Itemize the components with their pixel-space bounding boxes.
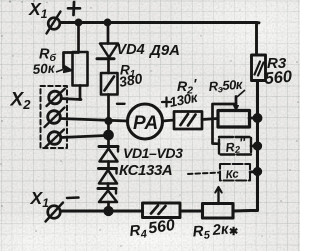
svg-text:Д9А: Д9А <box>148 42 180 59</box>
svg-text:Кс: Кс <box>225 168 240 181</box>
diode VD4 <box>100 44 118 58</box>
arrow from Re label to wiper <box>237 90 245 97</box>
wire R2' to Re <box>202 119 218 120</box>
node junction zener bottom <box>105 207 113 215</box>
node junction right rail top <box>254 114 261 121</box>
minus polarity mark <box>67 196 79 199</box>
resistor Rb body <box>73 52 88 86</box>
wire Rb top <box>77 23 80 53</box>
minus polarity mark <box>117 103 125 105</box>
resistor R3 <box>252 55 266 81</box>
wire pin2 to meter minus <box>60 119 128 122</box>
svg-text:КС133А: КС133А <box>119 162 172 179</box>
resistor R1 <box>101 73 118 95</box>
wire R4 to R5 <box>180 210 203 213</box>
connector X2 dashed outline <box>41 86 68 148</box>
plus polarity mark <box>165 98 167 107</box>
terminal X2 pin 3 <box>48 132 61 145</box>
wire VD3 to bottom rail <box>107 202 110 211</box>
resistor R2' <box>174 112 202 130</box>
terminal X2 pin 1 <box>49 91 62 104</box>
wire R5 to rail corner <box>233 209 251 212</box>
node junction Rb top <box>76 20 81 25</box>
wire right rail <box>250 81 258 211</box>
svg-text:50к: 50к <box>32 60 56 77</box>
wire VD4 anode <box>107 23 110 44</box>
terminal X2 pin 2 <box>48 111 61 124</box>
svg-text:✱: ✱ <box>229 226 238 238</box>
ammeter PA <box>128 104 163 139</box>
node junction <box>254 168 261 175</box>
wire pin1 to Rb bottom <box>61 99 81 100</box>
potentiometer R5 <box>203 204 234 219</box>
resistor R2'' <box>219 137 251 155</box>
svg-text:VD1–VD3: VD1–VD3 <box>123 145 183 161</box>
plus polarity mark <box>72 2 75 15</box>
wire R2'' to rail <box>251 145 258 148</box>
resistor Kc <box>220 164 250 181</box>
zener diode VD1 <box>99 145 118 148</box>
wire Kc to rail <box>250 170 258 173</box>
terminal X1 plus (top left) <box>48 18 60 30</box>
zener diode VD3 <box>98 187 116 190</box>
dashed wire to Kc <box>188 173 220 175</box>
resistor R4 <box>143 203 181 218</box>
wire pin3 to node <box>61 136 106 138</box>
wiper tap of R5 <box>217 189 219 204</box>
arrow from 50k label to wiper <box>56 70 63 73</box>
rheostat Re 50k body <box>218 111 250 128</box>
svg-text:РА: РА <box>133 113 158 134</box>
wire Rb bottom <box>79 86 82 100</box>
zener diode VD2 <box>99 167 117 170</box>
wire meter to R2' <box>163 120 175 121</box>
wire top rail <box>60 23 257 56</box>
node junction VD4 top <box>105 20 110 25</box>
svg-text:2к: 2к <box>211 221 231 240</box>
wire R1 bottom to node A <box>107 95 110 147</box>
node A junction <box>106 118 111 123</box>
wire node B down to R2'' <box>213 119 220 144</box>
wire Re to right rail <box>249 117 258 120</box>
wire VD4 to R1 <box>107 60 110 73</box>
svg-text:560: 560 <box>264 68 294 88</box>
wire <box>107 184 110 189</box>
wiper of rheostat Rb <box>64 53 79 69</box>
node junction pin3 <box>105 131 113 139</box>
wire bottom rail <box>61 210 143 213</box>
terminal X1 minus (bottom left) <box>48 206 61 219</box>
wiper loop of Re <box>213 104 237 119</box>
wire <box>107 162 110 169</box>
svg-text:VD4: VD4 <box>117 42 145 58</box>
node junction <box>254 143 261 150</box>
